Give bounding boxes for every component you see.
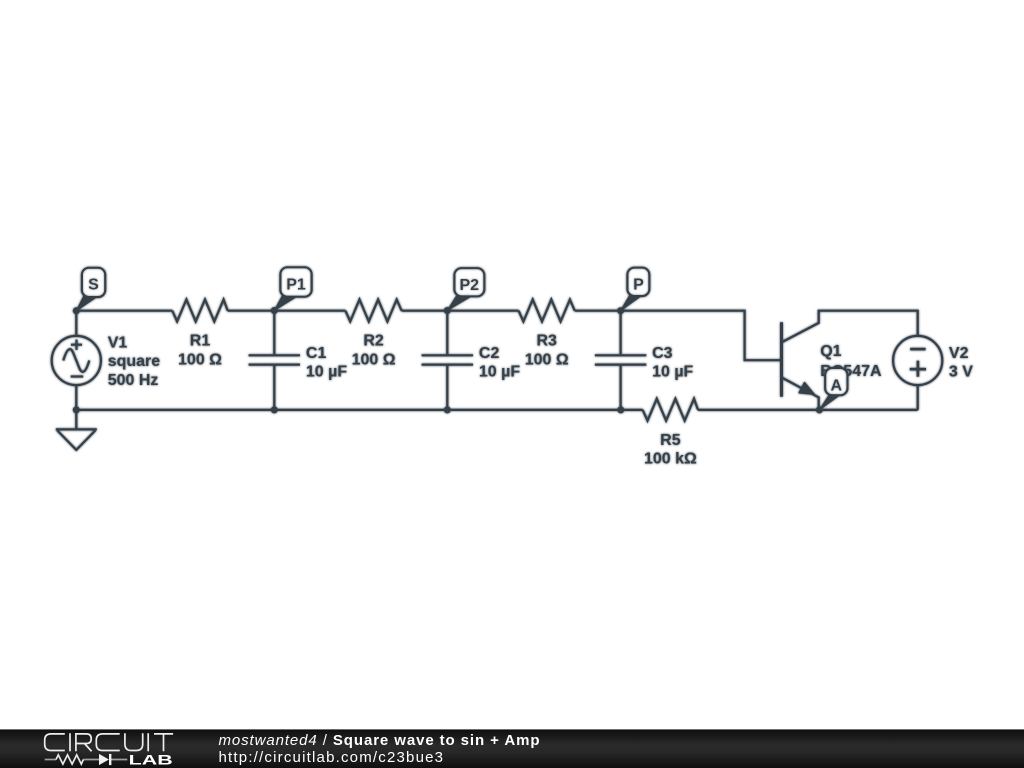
svg-text:mostwanted4 / Square wave to s: mostwanted4 / Square wave to sin + Amp [219, 732, 540, 749]
svg-text:R3: R3 [536, 333, 557, 350]
svg-text:10 µF: 10 µF [652, 363, 693, 380]
svg-text:S: S [88, 277, 99, 294]
svg-text:3 V: 3 V [949, 363, 973, 380]
svg-text:100 kΩ: 100 kΩ [644, 450, 697, 467]
svg-text:V1: V1 [108, 334, 128, 351]
svg-text:100 Ω: 100 Ω [525, 352, 569, 369]
svg-text:square: square [108, 353, 161, 370]
svg-text:P1: P1 [286, 277, 306, 294]
svg-text:R1: R1 [190, 333, 211, 350]
svg-text:C3: C3 [652, 345, 673, 362]
svg-text:C2: C2 [479, 345, 500, 362]
svg-text:500 Hz: 500 Hz [108, 372, 159, 389]
svg-text:R2: R2 [363, 333, 384, 350]
svg-text:V2: V2 [949, 345, 969, 362]
svg-text:R5: R5 [660, 432, 681, 449]
svg-text:10 µF: 10 µF [306, 363, 347, 380]
svg-text:Q1: Q1 [820, 343, 841, 360]
svg-text:100 Ω: 100 Ω [178, 352, 222, 369]
svg-text:LAB: LAB [129, 751, 173, 767]
svg-text:100 Ω: 100 Ω [352, 352, 396, 369]
svg-text:http://circuitlab.com/c23bue3: http://circuitlab.com/c23bue3 [219, 749, 444, 766]
svg-text:P: P [633, 277, 644, 294]
svg-text:10 µF: 10 µF [479, 363, 520, 380]
svg-text:A: A [831, 377, 843, 394]
svg-text:C1: C1 [306, 345, 327, 362]
svg-text:P2: P2 [460, 277, 480, 294]
